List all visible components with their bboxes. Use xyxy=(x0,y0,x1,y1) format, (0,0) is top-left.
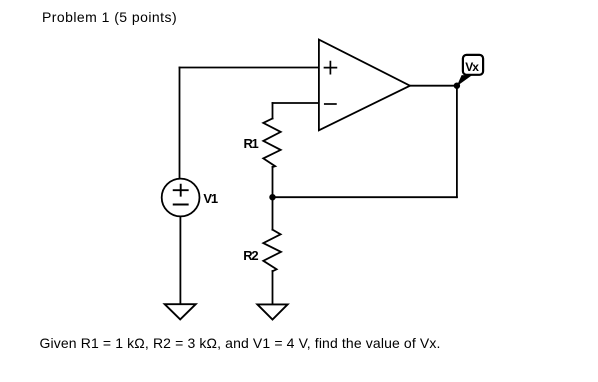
ground (under R2) xyxy=(257,304,287,319)
wire op-amp output xyxy=(410,85,457,87)
wire inverting input horizontal xyxy=(273,102,319,104)
resistor R2 xyxy=(263,230,281,272)
node output dot xyxy=(454,83,460,89)
bottom problem text xyxy=(40,335,441,351)
wire feedback horizontal xyxy=(273,196,457,198)
op-amp plus input symbol xyxy=(325,62,337,74)
wire R1 top vertical xyxy=(272,103,274,119)
voltage source V1 xyxy=(162,179,200,217)
Vx callout box xyxy=(463,55,483,75)
node junction dot (feedback node) xyxy=(269,194,275,200)
op-amp minus input symbol xyxy=(325,103,336,105)
wire R2 top vertical xyxy=(272,197,274,230)
label R2 xyxy=(243,248,257,263)
wire R2 bottom vertical xyxy=(272,271,274,304)
label Vx xyxy=(465,60,478,74)
wire left vertical to V1 xyxy=(179,68,181,179)
wire feedback vertical xyxy=(456,86,458,198)
wire below V1 xyxy=(179,216,181,304)
wire noninverting input horizontal xyxy=(180,67,319,69)
label V1 xyxy=(203,191,217,206)
wire R1 bottom vertical xyxy=(272,167,274,197)
title text xyxy=(42,9,177,25)
Vx callout pointer xyxy=(457,75,472,86)
ground (under V1) xyxy=(165,304,196,319)
resistor R1 xyxy=(263,119,280,168)
label R1 xyxy=(244,136,258,151)
op-amp U1 xyxy=(319,40,410,131)
